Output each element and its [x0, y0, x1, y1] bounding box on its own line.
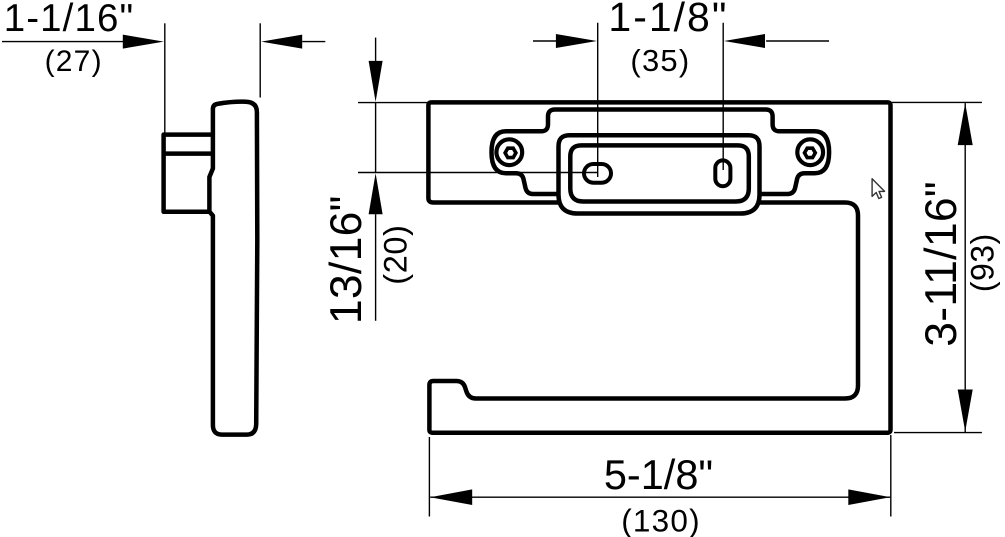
dim 3-11/16in: bottom arrowhead	[958, 390, 973, 432]
screw right hex socket	[805, 148, 816, 157]
screw left head	[496, 139, 522, 165]
svg-text:(35): (35)	[630, 43, 690, 78]
side view: wall plate (side)	[164, 135, 214, 212]
dim 1-1/16in: right arrowhead	[261, 35, 302, 49]
side view: holder arm	[209, 102, 257, 435]
dim 1-1/8in: dimension and extension lines	[533, 23, 829, 177]
mount plate outer outline	[559, 135, 760, 213]
screw left hex socket	[505, 148, 516, 157]
svg-text:(20): (20)	[378, 224, 414, 284]
svg-text:1-1/16": 1-1/16"	[4, 0, 135, 40]
mouse cursor	[872, 179, 885, 199]
mounting slot left (horizontal)	[584, 164, 611, 183]
dim 1-1/16in: left arrowhead	[123, 35, 164, 49]
svg-text:(27): (27)	[45, 45, 103, 78]
dim 5-1/8in: dimension and extension lines	[429, 435, 890, 517]
mount plate inner outline	[570, 145, 749, 201]
svg-text:5-1/8": 5-1/8"	[604, 451, 713, 498]
dim 5-1/8in: right arrowhead	[848, 489, 890, 505]
svg-text:13/16": 13/16"	[322, 195, 371, 324]
svg-text:3-11/16": 3-11/16"	[917, 181, 966, 347]
svg-text:(93): (93)	[964, 233, 1000, 292]
screw right head	[797, 139, 823, 165]
dim 3-11/16in: top arrowhead	[958, 103, 973, 145]
dim 13/16in: bottom arrowhead	[369, 173, 383, 214]
dim 13/16in: dimension, extension and leader lines	[358, 38, 598, 321]
mounting slot right (vertical)	[715, 160, 730, 186]
dim 1-1/8in: right arrowhead	[724, 34, 765, 48]
dim 13/16in: top arrowhead	[369, 61, 383, 102]
dim 5-1/8in: left arrowhead	[430, 489, 472, 505]
front view: wall bracket outline with screw ears	[492, 110, 830, 195]
front view: holder plate outline (G-shape)	[428, 102, 890, 432]
dim 3-11/16in: dimension and extension lines	[892, 102, 982, 432]
dim 1-1/16in: dimension and extension lines	[2, 23, 325, 133]
svg-text:1-1/8": 1-1/8"	[608, 0, 728, 40]
dim 1-1/8in: left arrowhead	[556, 34, 597, 48]
svg-text:(130): (130)	[621, 503, 701, 537]
